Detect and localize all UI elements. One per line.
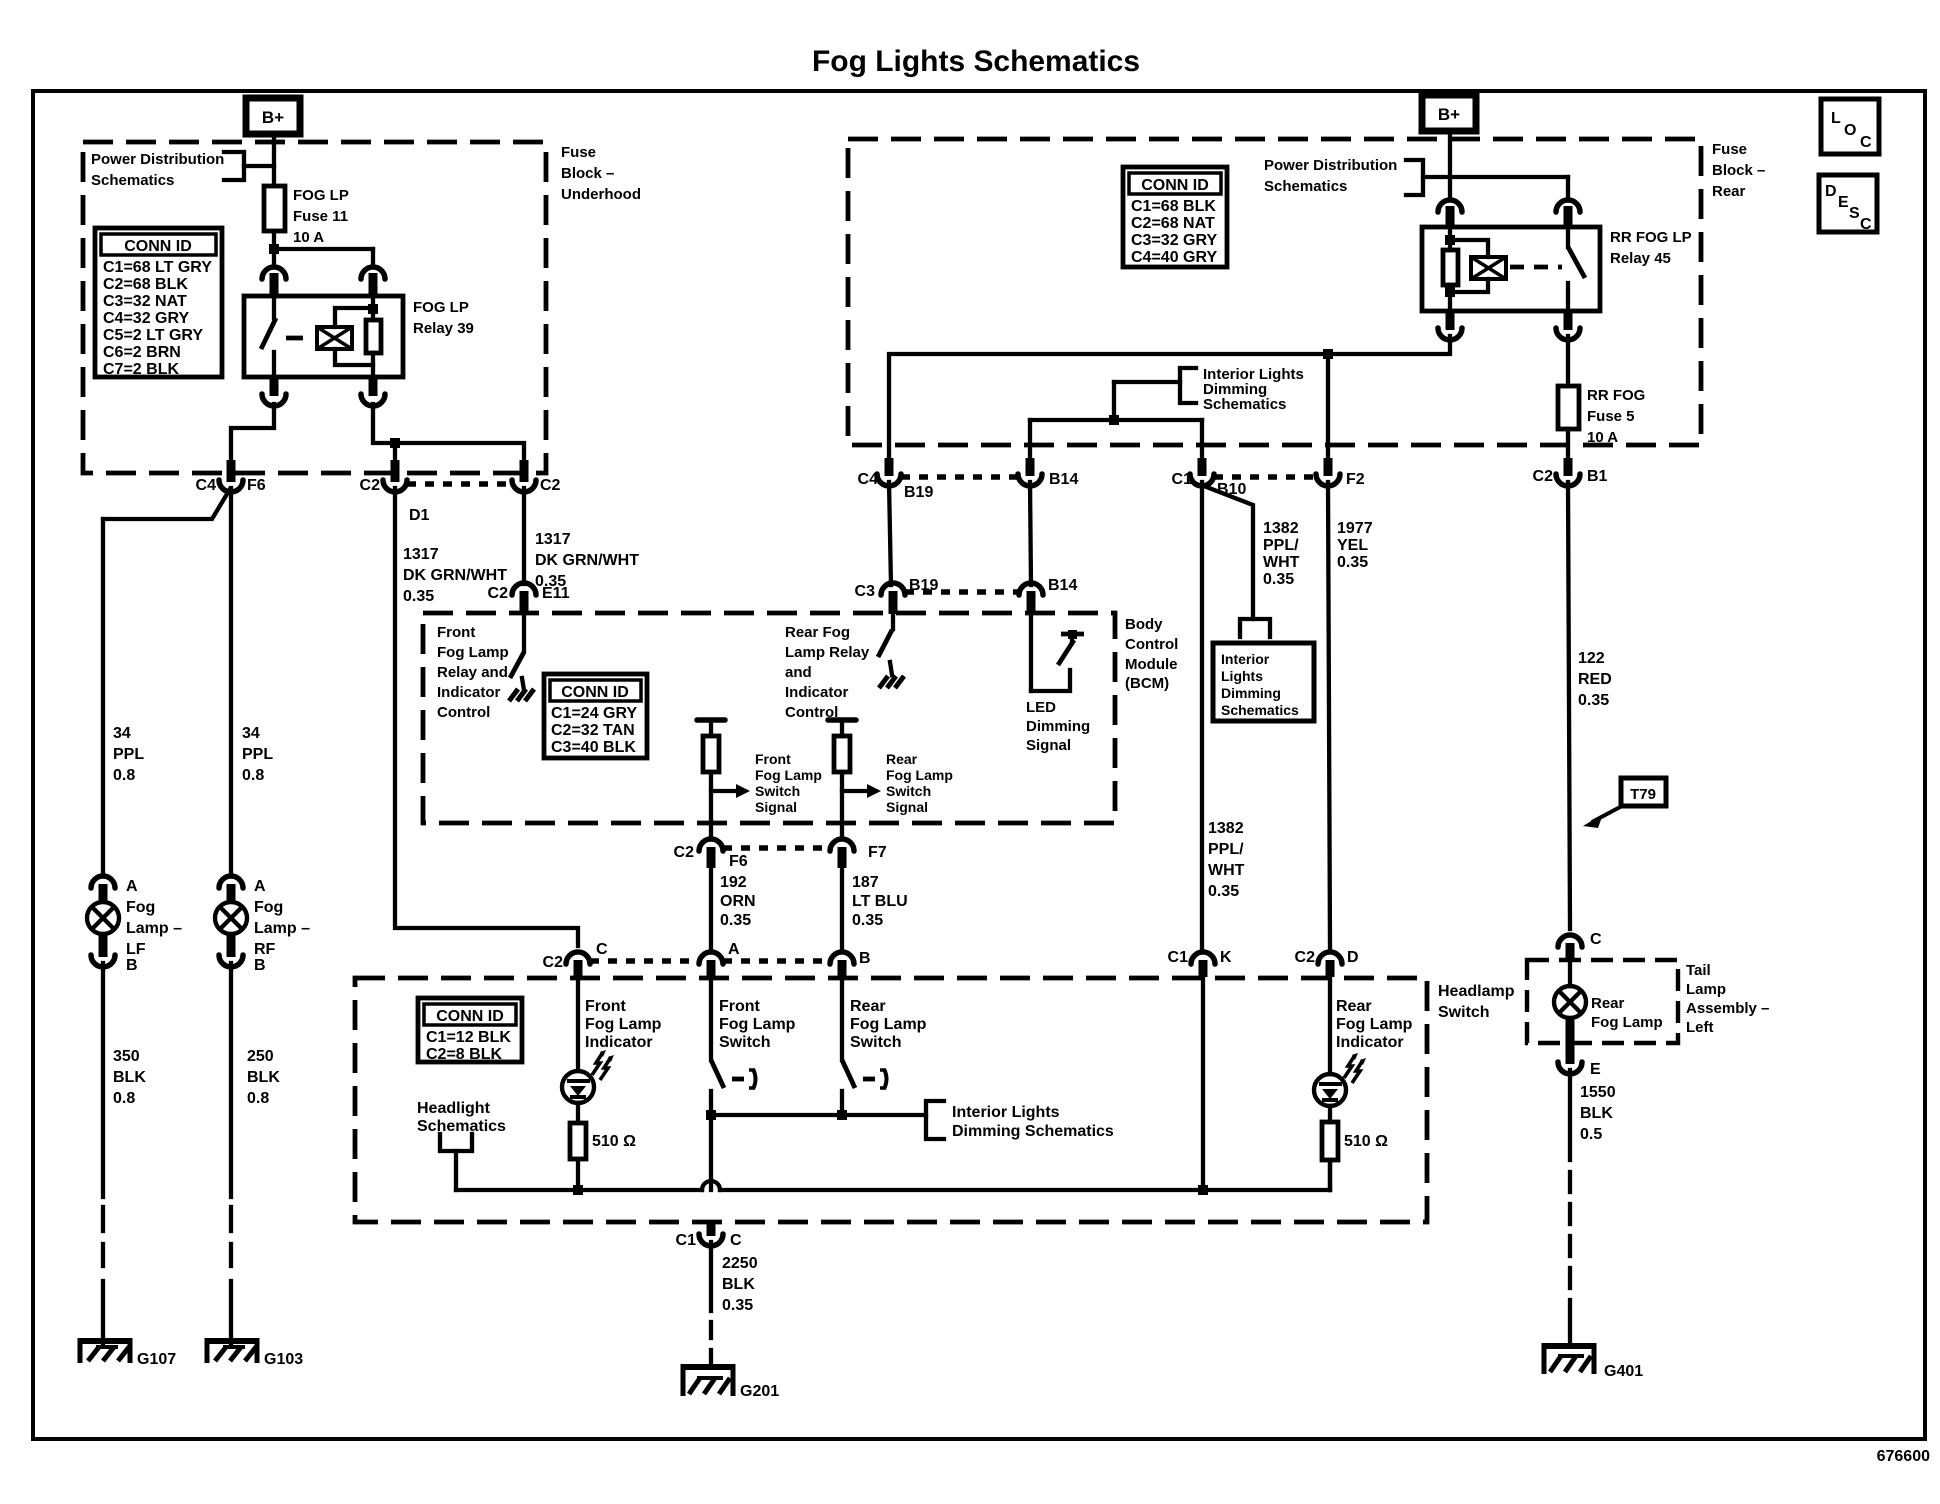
svg-text:A: A bbox=[254, 878, 266, 895]
front fog lamp switch signal output bbox=[697, 720, 750, 838]
dotted connector line B19 to B14 (BCM row) bbox=[905, 589, 1019, 595]
ground G201 bbox=[681, 1364, 779, 1400]
connector C2/B1 bbox=[1533, 458, 1608, 486]
front fog lamp switch bbox=[711, 977, 756, 1190]
wire F7 to B bbox=[840, 868, 844, 948]
svg-text:C1=68 LT GRY: C1=68 LT GRY bbox=[103, 259, 212, 276]
junction dot rear switch bbox=[837, 1110, 847, 1120]
label Power Distribution Schematics (right) bbox=[1264, 157, 1397, 195]
bracket to power distribution (right) bbox=[1406, 160, 1450, 195]
connector B14 (BCM) bbox=[1019, 577, 1077, 614]
svg-text:RF: RF bbox=[254, 941, 276, 958]
svg-text:Front: Front bbox=[755, 751, 791, 767]
svg-text:C4=40 GRY: C4=40 GRY bbox=[1131, 249, 1217, 266]
fuse FOG LP Fuse 11 10 A bbox=[264, 186, 349, 246]
svg-text:122: 122 bbox=[1578, 650, 1605, 667]
svg-text:and: and bbox=[785, 664, 812, 681]
svg-text:Indicator: Indicator bbox=[1336, 1034, 1404, 1051]
svg-text:Indicator: Indicator bbox=[785, 684, 849, 701]
svg-text:G201: G201 bbox=[740, 1383, 779, 1400]
junction dot LED switch t-bar bbox=[1068, 630, 1077, 639]
svg-text:WHT: WHT bbox=[1263, 554, 1300, 571]
svg-text:C2: C2 bbox=[540, 477, 561, 494]
svg-text:C1=12 BLK: C1=12 BLK bbox=[426, 1029, 511, 1046]
svg-text:C3=32 GRY: C3=32 GRY bbox=[1131, 232, 1217, 249]
svg-text:Rear: Rear bbox=[850, 998, 886, 1015]
svg-text:C: C bbox=[1590, 931, 1602, 948]
connector B (fog lamp LF) bbox=[91, 934, 138, 974]
svg-text:0.8: 0.8 bbox=[113, 767, 135, 784]
svg-text:Switch: Switch bbox=[1438, 1004, 1490, 1021]
resistor 510 ohm (front) bbox=[570, 1103, 636, 1190]
svg-text:RR FOG LP: RR FOG LP bbox=[1610, 229, 1692, 246]
dotted connector line B10 to F2 bbox=[1214, 474, 1316, 480]
svg-text:34: 34 bbox=[242, 725, 260, 742]
bracket interior lights dimming (headlamp switch) bbox=[926, 1101, 944, 1139]
LED dimming signal switch bbox=[1031, 614, 1084, 691]
wire F2 to D bbox=[1328, 482, 1330, 948]
svg-text:Control: Control bbox=[437, 704, 490, 721]
svg-text:B14: B14 bbox=[1048, 577, 1077, 594]
svg-text:LED: LED bbox=[1026, 699, 1056, 716]
svg-text:1317: 1317 bbox=[535, 531, 571, 548]
svg-text:Interior: Interior bbox=[1221, 651, 1270, 667]
ground G107 bbox=[78, 1338, 176, 1368]
battery feed B+ (left) bbox=[246, 98, 300, 134]
wire label 1317 DK GRN/WHT 0.35 (C2) bbox=[535, 531, 639, 590]
relay RR FOG LP Relay 45 box bbox=[1422, 227, 1600, 311]
connector dome above relay 45 pin 1 bbox=[1438, 200, 1462, 227]
svg-text:Front: Front bbox=[719, 998, 761, 1015]
relay 39 resistor bbox=[366, 296, 381, 377]
svg-text:Signal: Signal bbox=[886, 799, 928, 815]
svg-text:D: D bbox=[1347, 949, 1359, 966]
svg-text:1977: 1977 bbox=[1337, 520, 1373, 537]
wire fuse to relay pins with branch bbox=[274, 231, 373, 265]
svg-text:E: E bbox=[1590, 1061, 1601, 1078]
svg-text:0.35: 0.35 bbox=[852, 912, 883, 929]
svg-text:C1: C1 bbox=[1172, 471, 1193, 488]
svg-text:C7=2 BLK: C7=2 BLK bbox=[103, 361, 179, 378]
svg-text:250: 250 bbox=[247, 1048, 274, 1065]
svg-text:C3: C3 bbox=[855, 583, 876, 600]
junction dots relay 45 coil bbox=[1445, 235, 1455, 297]
wire label 350 BLK 0.8 bbox=[113, 1048, 146, 1107]
svg-text:676600: 676600 bbox=[1877, 1448, 1930, 1465]
svg-text:Headlamp: Headlamp bbox=[1438, 983, 1515, 1000]
svg-text:Body: Body bbox=[1125, 616, 1163, 633]
svg-text:RED: RED bbox=[1578, 671, 1612, 688]
wire relay 39 pin 3 to C4/F6 bbox=[231, 404, 274, 472]
svg-text:B: B bbox=[126, 957, 138, 974]
svg-text:Rear: Rear bbox=[886, 751, 918, 767]
svg-text:B+: B+ bbox=[262, 108, 284, 127]
svg-text:Left: Left bbox=[1686, 1019, 1714, 1036]
connector cup below relay 39 pin 5 bbox=[361, 377, 385, 406]
svg-text:C2: C2 bbox=[543, 954, 564, 971]
dotted connector line C to A to B bbox=[590, 958, 830, 964]
wire C2 down to E11 bbox=[522, 488, 526, 584]
svg-text:C3=40 BLK: C3=40 BLK bbox=[551, 739, 636, 756]
svg-text:Fog Lamp: Fog Lamp bbox=[437, 644, 509, 661]
svg-text:G401: G401 bbox=[1604, 1363, 1643, 1380]
svg-text:C: C bbox=[730, 1232, 742, 1249]
junction dot front switch bbox=[706, 1110, 716, 1120]
relay 39 switch bbox=[261, 296, 303, 377]
svg-text:Fog Lamp: Fog Lamp bbox=[1591, 1014, 1663, 1031]
svg-text:Dimming: Dimming bbox=[1221, 685, 1281, 701]
connector C1/C (switch ground) bbox=[676, 1222, 742, 1249]
svg-text:C6=2 BRN: C6=2 BRN bbox=[103, 344, 181, 361]
label Interior Lights Dimming Schematics (fuse block) bbox=[1203, 366, 1304, 413]
label Rear Fog Lamp Switch Signal bbox=[886, 751, 953, 815]
bracket to power distribution (left) bbox=[224, 152, 274, 180]
label Interior Lights Dimming Schematics (headlamp switch) bbox=[952, 1104, 1114, 1140]
svg-text:10 A: 10 A bbox=[293, 229, 324, 246]
svg-text:CONN ID: CONN ID bbox=[436, 1008, 504, 1025]
rear fog lamp switch bbox=[842, 977, 887, 1115]
svg-text:10 A: 10 A bbox=[1587, 429, 1618, 446]
label FOG LP Relay 39 bbox=[413, 299, 474, 337]
svg-text:C: C bbox=[1860, 216, 1872, 233]
svg-text:Block –: Block – bbox=[1712, 162, 1765, 179]
wire B+ to relay 45 pins bbox=[1450, 131, 1568, 198]
svg-text:350: 350 bbox=[113, 1048, 140, 1065]
svg-text:Tail: Tail bbox=[1686, 962, 1711, 979]
svg-text:1550: 1550 bbox=[1580, 1084, 1616, 1101]
svg-text:BLK: BLK bbox=[113, 1069, 146, 1086]
svg-text:Module: Module bbox=[1125, 656, 1178, 673]
wire label 34 PPL 0.8 (RF) bbox=[242, 725, 273, 784]
connector dome above relay 39 pin 1 bbox=[262, 267, 286, 296]
wire label 1317 DK GRN/WHT 0.35 (D1) bbox=[403, 546, 507, 605]
rear fog lamp indicator LED bbox=[1314, 977, 1366, 1106]
svg-text:C2: C2 bbox=[1533, 468, 1554, 485]
svg-text:B+: B+ bbox=[1438, 105, 1460, 124]
svg-text:Lamp –: Lamp – bbox=[126, 920, 182, 937]
ground symbol (rear relay control) bbox=[879, 662, 904, 688]
fog lamp RF bulb bbox=[215, 899, 310, 958]
label Headlight Schematics bbox=[417, 1100, 506, 1135]
label LED Dimming Signal bbox=[1026, 699, 1090, 754]
svg-text:Fuse 5: Fuse 5 bbox=[1587, 408, 1635, 425]
svg-text:B: B bbox=[254, 957, 266, 974]
wire fog lamp RF to G103 bbox=[229, 963, 233, 1343]
Body Control Module dashed box bbox=[423, 613, 1115, 823]
svg-text:CONN ID: CONN ID bbox=[561, 684, 629, 701]
wire label 187 LT BLU 0.35 bbox=[852, 874, 908, 929]
svg-text:Fog: Fog bbox=[126, 899, 155, 916]
svg-text:(BCM): (BCM) bbox=[1125, 675, 1169, 692]
bracket to interior lights dimming (fuse block) bbox=[1180, 368, 1196, 403]
ground bus inside headlamp switch bbox=[456, 1160, 1330, 1190]
svg-text:LT BLU: LT BLU bbox=[852, 893, 908, 910]
CONN ID table (headlamp switch) bbox=[418, 998, 522, 1063]
svg-text:FOG LP: FOG LP bbox=[293, 187, 349, 204]
bracket headlight schematics bbox=[440, 1134, 472, 1190]
wire label 2250 BLK 0.35 bbox=[722, 1255, 758, 1314]
junction dot on wire to D1 bbox=[390, 438, 400, 448]
svg-text:Relay 45: Relay 45 bbox=[1610, 250, 1671, 267]
rear fog lamp relay control switch bbox=[878, 614, 893, 657]
svg-text:C2: C2 bbox=[1295, 949, 1316, 966]
svg-text:0.35: 0.35 bbox=[1578, 692, 1609, 709]
svg-text:C: C bbox=[596, 941, 608, 958]
svg-text:B14: B14 bbox=[1049, 471, 1078, 488]
connector dome above relay 45 pin 2 bbox=[1556, 200, 1580, 227]
svg-text:PPL: PPL bbox=[242, 746, 273, 763]
svg-text:DK GRN/WHT: DK GRN/WHT bbox=[403, 567, 507, 584]
svg-text:D1: D1 bbox=[409, 507, 430, 524]
svg-text:Fog Lamp: Fog Lamp bbox=[886, 767, 953, 783]
svg-text:Lamp: Lamp bbox=[1686, 981, 1726, 998]
svg-text:F2: F2 bbox=[1346, 471, 1365, 488]
svg-text:Power Distribution: Power Distribution bbox=[91, 151, 224, 168]
label Headlamp Switch bbox=[1438, 983, 1515, 1021]
svg-text:Front: Front bbox=[585, 998, 627, 1015]
label Tail Lamp Assembly - Left bbox=[1686, 962, 1769, 1036]
svg-text:Fuse: Fuse bbox=[1712, 141, 1747, 158]
connector C4/B19 bbox=[858, 458, 934, 501]
svg-text:0.35: 0.35 bbox=[1337, 554, 1368, 571]
svg-text:E11: E11 bbox=[542, 585, 570, 602]
interior lights dimming tap wires bbox=[1030, 382, 1202, 470]
relay FOG LP Relay 39 box bbox=[244, 296, 403, 377]
dotted connector line F6 to F7 bbox=[723, 845, 830, 851]
svg-text:FOG LP: FOG LP bbox=[413, 299, 469, 316]
wire C4/F6 to fog lamp RF bbox=[229, 488, 233, 874]
fuse RR FOG Fuse 5 10 A bbox=[1558, 336, 1645, 446]
svg-text:34: 34 bbox=[113, 725, 131, 742]
connector C1/B10 bbox=[1172, 458, 1247, 498]
connector F2 bbox=[1316, 458, 1365, 488]
Headlamp Switch dashed box bbox=[355, 978, 1427, 1222]
dotted connector line D1 to C2 bbox=[407, 481, 512, 487]
svg-text:1317: 1317 bbox=[403, 546, 439, 563]
svg-text:K: K bbox=[1220, 949, 1232, 966]
svg-text:Signal: Signal bbox=[755, 799, 797, 815]
svg-text:0.5: 0.5 bbox=[1580, 1126, 1602, 1143]
svg-text:C2=32 TAN: C2=32 TAN bbox=[551, 722, 635, 739]
svg-text:Signal: Signal bbox=[1026, 737, 1071, 754]
svg-text:C2: C2 bbox=[674, 844, 695, 861]
wire C1/C to G201 bbox=[709, 1242, 713, 1366]
svg-text:G103: G103 bbox=[264, 1351, 303, 1368]
svg-text:Switch: Switch bbox=[755, 783, 800, 799]
svg-text:C2=68 BLK: C2=68 BLK bbox=[103, 276, 188, 293]
connector C (tail lamp) bbox=[1558, 931, 1602, 962]
svg-text:Front: Front bbox=[437, 624, 475, 641]
wire E to G401 bbox=[1568, 1070, 1572, 1345]
svg-text:0.8: 0.8 bbox=[247, 1090, 269, 1107]
svg-text:S: S bbox=[1849, 205, 1860, 222]
goes-to bracket above interior lights box bbox=[1240, 619, 1270, 637]
svg-text:2250: 2250 bbox=[722, 1255, 758, 1272]
front fog lamp indicator LED bbox=[562, 977, 614, 1103]
label Rear Fog Lamp Switch bbox=[850, 998, 927, 1051]
svg-text:Lights: Lights bbox=[1221, 668, 1263, 684]
svg-text:Relay and: Relay and bbox=[437, 664, 508, 681]
wire label 250 BLK 0.8 bbox=[247, 1048, 280, 1107]
svg-text:0.8: 0.8 bbox=[242, 767, 264, 784]
wire fog lamp LF to G107 bbox=[101, 963, 105, 1343]
wire C2/B1 to C (tail lamp) bbox=[1568, 482, 1570, 929]
wire label 1382 PPL/WHT 0.35 (upper) bbox=[1263, 520, 1300, 588]
svg-text:L: L bbox=[1831, 110, 1841, 127]
svg-text:B19: B19 bbox=[904, 484, 933, 501]
wire relay 39 pin 5 to D1 and C2 bbox=[373, 404, 524, 472]
junction dot relay 39 coil top bbox=[368, 304, 378, 314]
svg-text:C4: C4 bbox=[196, 477, 217, 494]
svg-text:C1: C1 bbox=[676, 1232, 697, 1249]
svg-text:C1=24 GRY: C1=24 GRY bbox=[551, 705, 637, 722]
svg-text:0.8: 0.8 bbox=[113, 1090, 135, 1107]
T79 arrow bbox=[1583, 806, 1622, 828]
svg-text:ORN: ORN bbox=[720, 893, 756, 910]
LOC box bbox=[1821, 99, 1879, 154]
svg-text:YEL: YEL bbox=[1337, 537, 1368, 554]
svg-text:Dimming Schematics: Dimming Schematics bbox=[952, 1123, 1114, 1140]
svg-text:C1: C1 bbox=[1168, 949, 1189, 966]
Fuse Block - Underhood dashed box bbox=[83, 142, 546, 473]
connector B (fog lamp RF) bbox=[219, 934, 266, 974]
svg-text:Fog Lamp: Fog Lamp bbox=[585, 1016, 662, 1033]
Tail Lamp Assembly dashed box bbox=[1527, 960, 1678, 1043]
svg-text:Relay 39: Relay 39 bbox=[413, 320, 474, 337]
label Fuse Block - Rear bbox=[1712, 141, 1765, 200]
connector B14 (row 1) bbox=[1018, 458, 1078, 488]
connector C2/C (indicator feed) bbox=[543, 941, 608, 977]
svg-text:0.35: 0.35 bbox=[403, 588, 434, 605]
wire label 34 PPL 0.8 (LF) bbox=[113, 725, 144, 784]
svg-text:Lamp Relay: Lamp Relay bbox=[785, 644, 870, 661]
label Body Control Module (BCM) bbox=[1125, 616, 1178, 692]
svg-text:Block –: Block – bbox=[561, 165, 614, 182]
svg-text:192: 192 bbox=[720, 874, 747, 891]
svg-text:F6: F6 bbox=[729, 853, 748, 870]
connector C2/E11 bbox=[488, 583, 570, 614]
svg-text:O: O bbox=[1844, 122, 1856, 139]
svg-text:BLK: BLK bbox=[247, 1069, 280, 1086]
svg-text:1382: 1382 bbox=[1263, 520, 1299, 537]
label Power Distribution Schematics (left) bbox=[91, 151, 224, 189]
CONN ID table (fuse block rear) bbox=[1123, 167, 1227, 267]
svg-text:Switch: Switch bbox=[850, 1034, 902, 1051]
label Rear Fog Lamp Indicator bbox=[1336, 998, 1413, 1051]
svg-text:Indicator: Indicator bbox=[585, 1034, 653, 1051]
connector cup below relay 39 pin 3 bbox=[262, 377, 286, 406]
svg-text:BLK: BLK bbox=[1580, 1105, 1613, 1122]
battery feed B+ (right) bbox=[1422, 95, 1476, 131]
ground G103 bbox=[205, 1338, 303, 1368]
connector C2/F6 (switch feed) bbox=[674, 839, 748, 870]
svg-text:Dimming: Dimming bbox=[1026, 718, 1090, 735]
svg-text:B1: B1 bbox=[1587, 468, 1608, 485]
svg-text:B: B bbox=[859, 950, 871, 967]
T79 takeout box bbox=[1621, 778, 1666, 806]
svg-text:C2: C2 bbox=[360, 477, 381, 494]
label Front Fog Lamp Switch bbox=[719, 998, 796, 1051]
svg-text:Indicator: Indicator bbox=[437, 684, 501, 701]
connector B (rear fog lamp switch) bbox=[830, 950, 871, 977]
svg-text:C3=32 NAT: C3=32 NAT bbox=[103, 293, 187, 310]
switch output wire to interior lights dimming bbox=[711, 1113, 926, 1117]
svg-text:CONN ID: CONN ID bbox=[124, 238, 192, 255]
svg-text:Schematics: Schematics bbox=[91, 172, 174, 189]
connector F7 (switch feed) bbox=[830, 839, 887, 868]
svg-text:Assembly –: Assembly – bbox=[1686, 1000, 1769, 1017]
svg-text:Rear Fog: Rear Fog bbox=[785, 624, 850, 641]
relay 45 resistor bbox=[1443, 227, 1458, 311]
connector E (tail lamp) bbox=[1558, 1018, 1601, 1078]
svg-text:510 Ω: 510 Ω bbox=[1344, 1133, 1388, 1150]
connector A (fog lamp RF) bbox=[219, 876, 266, 903]
connector C2 (to E11) bbox=[512, 460, 561, 494]
svg-text:G107: G107 bbox=[137, 1351, 176, 1368]
svg-text:Control: Control bbox=[1125, 636, 1178, 653]
svg-text:Switch: Switch bbox=[886, 783, 931, 799]
svg-text:0.35: 0.35 bbox=[722, 1297, 753, 1314]
svg-text:F7: F7 bbox=[868, 844, 887, 861]
connector cup below relay 45 pin 3 bbox=[1438, 311, 1462, 340]
wire B10 to interior lights dimming box bbox=[1204, 486, 1253, 619]
wire relay 45 output bus to B19 and F2 bbox=[889, 336, 1450, 470]
svg-text:Fog Lamp: Fog Lamp bbox=[755, 767, 822, 783]
svg-text:E: E bbox=[1838, 194, 1849, 211]
svg-text:Power Distribution: Power Distribution bbox=[1264, 157, 1397, 174]
wire label 1382 PPL/WHT 0.35 (lower) bbox=[1208, 820, 1245, 900]
svg-text:RR FOG: RR FOG bbox=[1587, 387, 1645, 404]
svg-text:C2: C2 bbox=[488, 585, 509, 602]
svg-text:Schematics: Schematics bbox=[1264, 178, 1347, 195]
svg-text:CONN ID: CONN ID bbox=[1141, 177, 1209, 194]
svg-text:Interior Lights: Interior Lights bbox=[952, 1104, 1060, 1121]
svg-text:C2=8 BLK: C2=8 BLK bbox=[426, 1046, 502, 1063]
svg-text:Schematics: Schematics bbox=[417, 1118, 506, 1135]
svg-text:BLK: BLK bbox=[722, 1276, 755, 1293]
svg-text:0.35: 0.35 bbox=[720, 912, 751, 929]
svg-text:Headlight: Headlight bbox=[417, 1100, 491, 1117]
label Rear Fog Lamp Relay and Indicator Control bbox=[785, 624, 870, 721]
dotted connector line B19 to B14 bbox=[901, 474, 1018, 480]
connector C1/K bbox=[1168, 949, 1232, 977]
CONN ID table (BCM) bbox=[544, 674, 647, 758]
svg-text:C2=68 NAT: C2=68 NAT bbox=[1131, 215, 1215, 232]
relay 45 switch bbox=[1568, 227, 1585, 311]
svg-text:LF: LF bbox=[126, 941, 146, 958]
svg-text:Fog: Fog bbox=[254, 899, 283, 916]
svg-text:PPL/: PPL/ bbox=[1263, 537, 1299, 554]
svg-text:Lamp –: Lamp – bbox=[254, 920, 310, 937]
DESC box bbox=[1819, 175, 1877, 233]
connector dome above relay 39 pin 2 bbox=[361, 267, 385, 296]
svg-text:T79: T79 bbox=[1630, 786, 1656, 803]
svg-text:Fog Lights Schematics: Fog Lights Schematics bbox=[812, 45, 1140, 78]
svg-text:187: 187 bbox=[852, 874, 879, 891]
svg-text:C5=2 LT GRY: C5=2 LT GRY bbox=[103, 327, 203, 344]
fog lamp LF bulb bbox=[87, 899, 182, 958]
junction dot K wire to bus bbox=[1198, 1185, 1208, 1195]
svg-text:A: A bbox=[728, 941, 740, 958]
svg-text:Schematics: Schematics bbox=[1203, 396, 1286, 413]
rear fog lamp switch signal output bbox=[828, 720, 881, 838]
ground symbol (front relay control) bbox=[509, 678, 534, 701]
wire label 192 ORN 0.35 bbox=[720, 874, 756, 929]
connector C2/D bbox=[1295, 949, 1359, 977]
svg-text:WHT: WHT bbox=[1208, 862, 1245, 879]
junction dot below fuse 11 bbox=[269, 244, 279, 254]
ground G401 bbox=[1542, 1343, 1643, 1380]
